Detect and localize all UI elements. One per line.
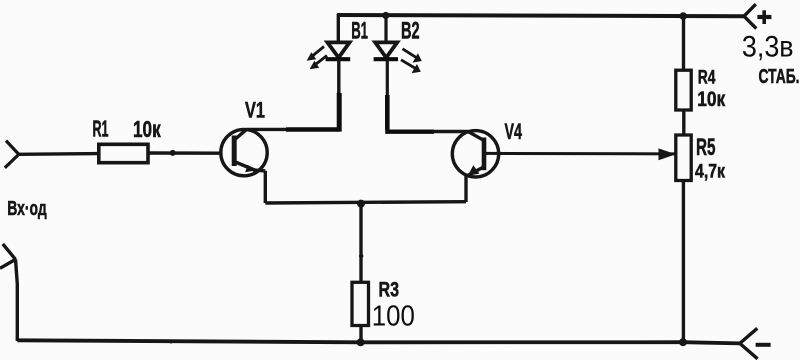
svg-text:R5: R5 <box>696 134 716 161</box>
svg-text:R4: R4 <box>698 66 716 88</box>
svg-text:3,3в: 3,3в <box>742 30 794 63</box>
svg-text:V4: V4 <box>505 119 523 144</box>
svg-text:R1: R1 <box>93 116 109 142</box>
svg-text:R3: R3 <box>379 278 400 302</box>
svg-text:4,7к: 4,7к <box>695 160 725 182</box>
svg-text:B1: B1 <box>351 17 368 44</box>
svg-text:V1: V1 <box>245 98 265 123</box>
svg-text:B2: B2 <box>401 17 420 44</box>
svg-text:100: 100 <box>372 300 415 332</box>
svg-text:Вх·од: Вх·од <box>7 198 47 220</box>
svg-text:СТАБ.: СТАБ. <box>759 66 800 88</box>
svg-text:10к: 10к <box>133 116 161 142</box>
svg-text:10к: 10к <box>697 88 725 111</box>
